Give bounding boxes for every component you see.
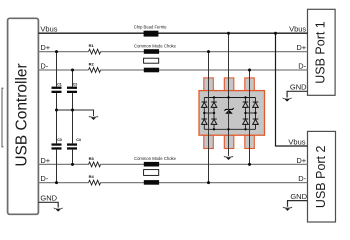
svg-text:D+: D+ (40, 43, 50, 52)
label D- port2 (298, 174, 306, 183)
svg-text:C3: C3 (57, 138, 62, 142)
label D- controller sec2 (40, 174, 48, 183)
wire cap column B (72, 70, 74, 164)
svg-text:C4: C4 (76, 138, 81, 142)
node dot midpoint D (254, 112, 256, 114)
USB Controller U1 (8, 18, 39, 214)
diode D1 (202, 102, 208, 107)
svg-text:R2: R2 (89, 61, 95, 66)
ESD array U2 pin 5 (224, 135, 234, 148)
label Vbus port1 (289, 25, 306, 34)
wire cap column A (56, 52, 58, 183)
common mode choke L2 (134, 156, 177, 185)
svg-text:USB Port 2: USB Port 2 (314, 145, 328, 208)
label GND controller (40, 194, 57, 203)
wire GND port2 (288, 201, 308, 207)
resistor R1 (89, 43, 101, 54)
ESD array U2 body (199, 91, 265, 136)
label Vbus port2 (288, 137, 305, 146)
node dot rail-A (55, 109, 58, 112)
ferrite bead FB1 (134, 25, 167, 37)
ESD array U2 pin 4 (204, 135, 214, 148)
label Vbus controller (40, 25, 57, 34)
node dot D-2 chip (207, 181, 210, 184)
left edge bracket (2, 88, 4, 147)
label D+ port2 (296, 156, 306, 165)
node dot D+1 column A (55, 50, 58, 53)
ground symbol chip (224, 156, 234, 160)
svg-text:GND: GND (290, 83, 307, 92)
node dot D-1 column B (71, 69, 74, 72)
wire chip drop right (249, 70, 251, 164)
label D- port1 (298, 61, 306, 70)
node dot Vbus drop (227, 32, 230, 35)
wire D- port2 (38, 182, 307, 184)
svg-text:Common Mode Choke: Common Mode Choke (134, 43, 177, 48)
label GND port1 (290, 83, 307, 92)
wire Vbus port2 (276, 33, 308, 146)
svg-text:USB Controller: USB Controller (13, 63, 30, 166)
wire chip drop middle (228, 33, 230, 156)
svg-text:C1: C1 (57, 83, 62, 87)
USB Port 1 J1 (308, 9, 336, 95)
node dot rail bottom B (213, 128, 215, 130)
wire diode column D (255, 98, 257, 130)
label GND port2 (290, 192, 307, 201)
wire D- port1 (38, 69, 307, 71)
wire diode column B (213, 98, 215, 130)
svg-text:GND: GND (40, 194, 57, 203)
wire chip drop left (208, 52, 210, 183)
svg-text:Vbus: Vbus (40, 25, 57, 34)
diode D3 (202, 119, 208, 124)
svg-text:GND: GND (290, 192, 307, 201)
svg-text:D-: D- (40, 61, 48, 70)
wire diode column C (245, 98, 247, 130)
svg-text:Chip Bead Ferrite: Chip Bead Ferrite (134, 25, 167, 30)
wire D+ port1 (38, 51, 307, 53)
capacitor C1 (52, 83, 62, 93)
capacitor C4 (67, 138, 81, 149)
ESD array U2 pin 1 (204, 78, 214, 91)
node dot Vbus port2 drop (274, 32, 277, 35)
svg-text:D-: D- (40, 174, 48, 183)
resistor R3 (89, 156, 101, 167)
node dot midpoint A (203, 112, 205, 114)
svg-text:Common Mode Choke: Common Mode Choke (134, 156, 177, 161)
diode D6 (253, 102, 259, 107)
wire inner bottom rail (204, 128, 255, 130)
diode D8 (253, 119, 259, 124)
label D- controller sec1 (40, 61, 48, 70)
svg-text:R4: R4 (89, 174, 95, 179)
node dot D+2 chip (248, 163, 251, 166)
node dot rail top B (213, 96, 215, 98)
wire inner top rail (204, 97, 255, 99)
label D+ controller sec1 (40, 43, 50, 52)
capacitor C3 (52, 138, 62, 149)
wire Vbus port1 (38, 32, 307, 34)
svg-text:USB Port 1: USB Port 1 (314, 21, 328, 84)
diode D5 (243, 102, 249, 107)
wire GND controller (38, 202, 58, 207)
node dot D-1 chip (248, 69, 251, 72)
ground symbol port2 (283, 207, 293, 211)
zener Z1 (224, 108, 233, 114)
svg-text:R1: R1 (89, 43, 95, 48)
ground symbol controller (53, 208, 63, 212)
svg-text:R3: R3 (89, 156, 95, 161)
node dot midpoint C (244, 112, 246, 114)
wire ground rail (57, 110, 94, 116)
diode D7 (243, 119, 249, 124)
node dot rail top C (244, 96, 246, 98)
svg-text:C2: C2 (73, 83, 78, 87)
node dot D+2 column B (71, 163, 74, 166)
label D+ port1 (296, 43, 306, 52)
node dot rail bottom zener (227, 128, 229, 130)
svg-text:D+: D+ (40, 156, 50, 165)
ESD array U2 pin 6 (245, 135, 255, 148)
svg-text:D-: D- (298, 174, 306, 183)
node dot D+1 chip (207, 50, 210, 53)
diode D4 (211, 119, 217, 124)
wire D+ port2 (38, 163, 307, 165)
svg-text:D+: D+ (296, 43, 306, 52)
svg-text:D-: D- (298, 61, 306, 70)
diode D2 (211, 102, 217, 107)
USB Port 2 J2 (308, 131, 336, 222)
svg-text:Vbus: Vbus (288, 137, 305, 146)
common mode choke L1 (134, 43, 177, 72)
resistor R2 (89, 61, 101, 72)
ESD array U2 pin 2 (224, 78, 234, 91)
ESD array U2 pin 3 (245, 78, 255, 91)
wire diode column A (203, 98, 205, 130)
capacitor C2 (67, 83, 77, 93)
ground symbol cap rail (89, 116, 99, 120)
wire GND port1 (287, 91, 307, 97)
resistor R4 (89, 174, 101, 185)
node dot rail bottom C (244, 128, 246, 130)
wire midpoint left (204, 112, 214, 114)
node dot rail top zener (227, 96, 229, 98)
svg-text:D+: D+ (296, 156, 306, 165)
node dot midpoint B (213, 112, 215, 114)
wire midpoint right (246, 112, 256, 114)
node dot D-2 column A (55, 181, 58, 184)
label D+ controller sec2 (40, 156, 50, 165)
svg-text:Vbus: Vbus (289, 25, 306, 34)
node dot rail-B (71, 109, 74, 112)
ground symbol port1 (282, 98, 292, 102)
